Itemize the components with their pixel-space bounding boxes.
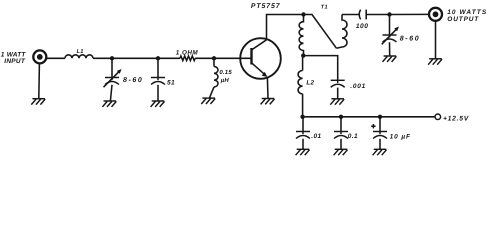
wire input jack to ground: [38, 64, 41, 99]
ground C4: [330, 99, 344, 105]
svg-text:51: 51: [167, 80, 175, 87]
ground input jack: [31, 99, 45, 105]
node I junction rail 10uF: [378, 115, 382, 119]
wire node E to output jack: [390, 13, 429, 15]
wire T1 diagonal link: [304, 15, 337, 49]
node A junction: [110, 56, 114, 60]
wire Q1 emitter to ground: [266, 78, 269, 99]
wire node B to R1: [158, 57, 180, 59]
ground C9: [373, 149, 387, 155]
node G junction rail L2: [300, 115, 304, 119]
svg-text:L2: L2: [306, 80, 314, 87]
node B junction: [156, 56, 160, 60]
capacitor C6 variable 8-60 output trimmer: [382, 15, 399, 56]
node: 1 WATT INPUT label: [1, 52, 27, 65]
inductor L2 collector feed choke: [298, 56, 303, 117]
ground C6: [383, 56, 397, 62]
capacitor C8 0.1 bypass: [334, 117, 348, 149]
capacitor C2 51: [151, 58, 165, 101]
svg-text:T1: T1: [321, 5, 328, 11]
wire node F to C4: [303, 56, 337, 80]
transistor Q1 PT5757: [240, 38, 281, 79]
wire L1 to node A: [93, 57, 112, 59]
ground output jack: [428, 59, 442, 65]
wire Q1 collector up and right to T1: [267, 15, 304, 40]
svg-text:10 µF: 10 µF: [390, 133, 411, 140]
svg-text:PT5757: PT5757: [251, 3, 281, 10]
inductor L1: [65, 55, 93, 59]
wire T1 secondary to C5: [342, 14, 360, 16]
svg-text:+12.5V: +12.5V: [443, 115, 470, 122]
ground C7: [296, 149, 310, 155]
resistor R1 1 OHM: [180, 56, 195, 61]
svg-text:10 WATTS: 10 WATTS: [447, 9, 487, 16]
connector J2 output jack: [429, 8, 442, 21]
wire node A to node B: [112, 57, 158, 59]
ground C1: [102, 101, 116, 107]
capacitor C7 .01 bypass: [296, 117, 310, 149]
node H junction rail 0.1: [339, 115, 343, 119]
node E junction: [387, 12, 391, 16]
capacitor C9 10 uF electrolytic: [371, 117, 387, 149]
node: 10 WATTS OUTPUT label: [447, 9, 487, 23]
wire R1 to node C: [195, 57, 214, 59]
svg-text:.001: .001: [350, 83, 366, 90]
svg-text:0.15: 0.15: [219, 69, 232, 76]
ground C2: [151, 101, 165, 107]
svg-text:1 OHM: 1 OHM: [176, 49, 199, 56]
connector J1 input jack: [33, 50, 46, 63]
svg-text:OUTPUT: OUTPUT: [447, 16, 479, 23]
transformer T1 secondary winding right: [336, 15, 347, 49]
svg-text:8-60: 8-60: [123, 77, 143, 84]
connector +12.5V terminal: [435, 114, 441, 120]
node C junction: [212, 56, 216, 60]
transformer T1 primary winding left: [299, 15, 303, 56]
node D junction collector T1 top: [301, 12, 305, 16]
ground L3: [201, 98, 215, 104]
inductor L3 0.15 uH base choke: [210, 58, 219, 98]
capacitor C5 100 series coupling: [359, 10, 389, 20]
wire node A down to C1: [111, 58, 113, 77]
wire +12.5V supply rail: [303, 116, 435, 118]
label 0.15 uH value of L3: [219, 69, 232, 84]
capacitor C4 .001 bypass: [331, 80, 345, 98]
svg-text:L1: L1: [77, 49, 84, 55]
wire node C to Q1 base: [214, 57, 252, 59]
ground Q1 emitter: [261, 99, 275, 105]
svg-text:µH: µH: [220, 77, 230, 84]
capacitor C1 variable 8-60 input trimmer: [104, 69, 122, 101]
ground C8: [334, 149, 348, 155]
node F junction T1 bottom: [301, 53, 305, 57]
svg-text:0.1: 0.1: [348, 133, 358, 140]
svg-text:8-60: 8-60: [400, 36, 420, 43]
svg-text:100: 100: [356, 23, 369, 30]
wire input jack to L1: [46, 57, 65, 59]
svg-text:.01: .01: [311, 133, 321, 140]
wire output jack to ground: [435, 21, 437, 59]
svg-text:INPUT: INPUT: [4, 58, 26, 65]
